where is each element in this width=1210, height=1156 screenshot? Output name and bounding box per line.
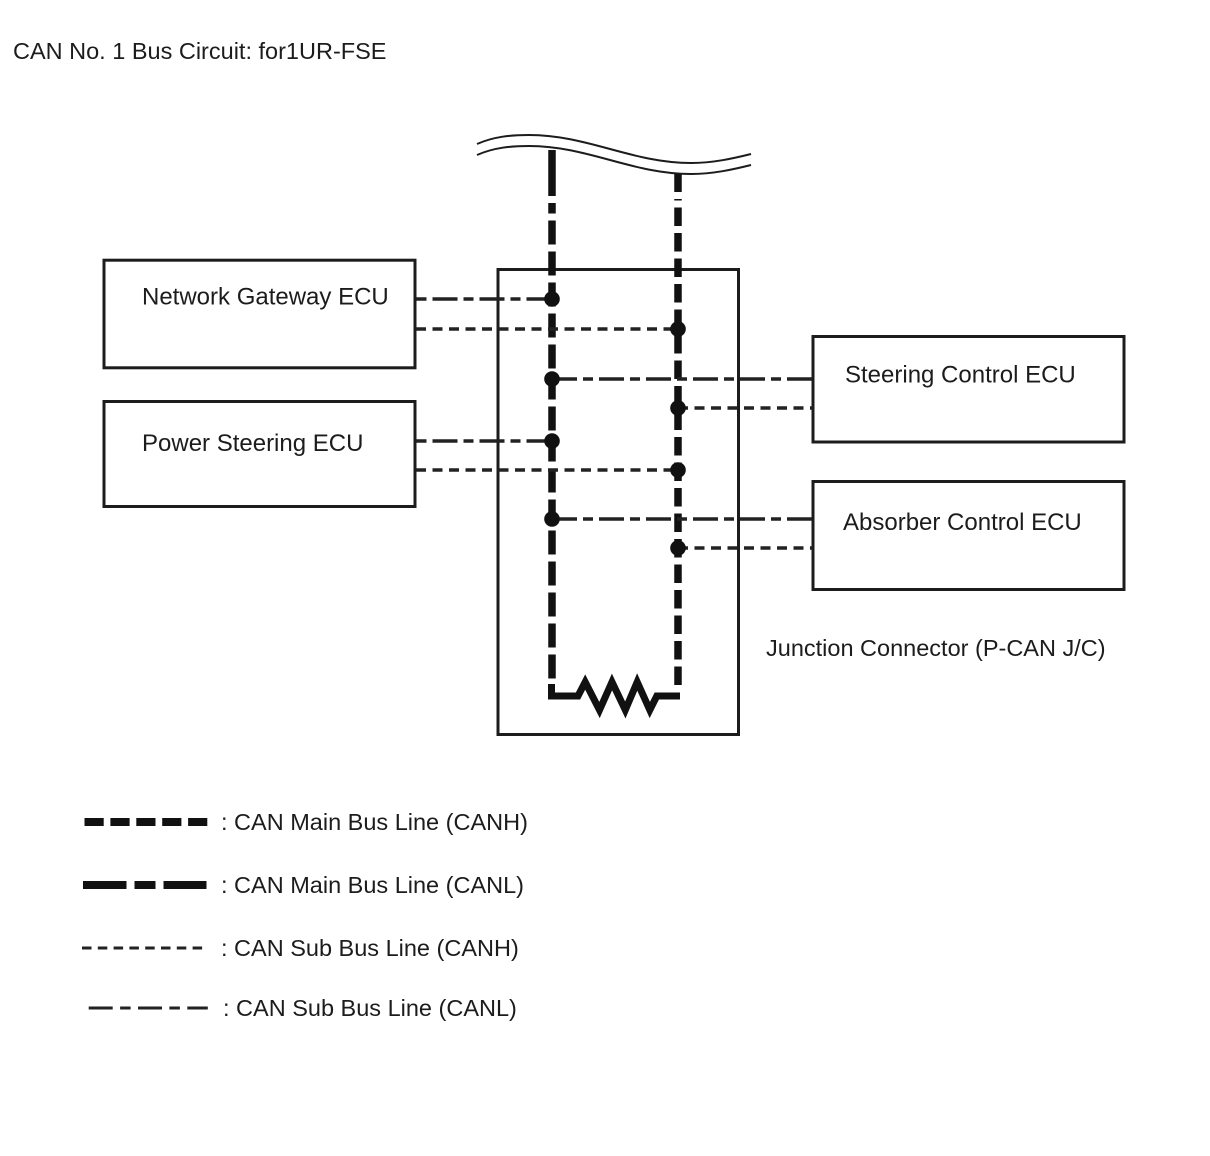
junction dot: PS CANH on right bus <box>670 462 686 478</box>
ECU box Power Steering <box>104 402 415 507</box>
svg-text:Power Steering ECU: Power Steering ECU <box>142 430 363 457</box>
svg-text:Steering Control ECU: Steering Control ECU <box>845 362 1076 389</box>
junction dot: PS CANL on left bus <box>544 433 560 449</box>
junction dot: NGW CANL on left bus <box>544 291 560 307</box>
junction dot: SC CANL on left bus <box>544 371 560 387</box>
ECU box Steering Control <box>813 337 1124 443</box>
legend sample: CAN Sub Bus Line (CANL) <box>89 1007 208 1010</box>
svg-text:CAN No. 1 Bus Circuit: for1UR-: CAN No. 1 Bus Circuit: for1UR-FSE <box>13 38 386 64</box>
junction connector box (P-CAN J/C) <box>498 270 739 735</box>
svg-text:Absorber Control ECU: Absorber Control ECU <box>843 509 1082 536</box>
wire CANH sub: right bus to Absorber Control ECU <box>678 546 813 549</box>
wire CANL sub: Power Steering ECU to left bus <box>417 439 553 442</box>
svg-text:: CAN Sub Bus Line (CANL): : CAN Sub Bus Line (CANL) <box>223 995 517 1021</box>
svg-text:Junction Connector (P-CAN J/C): Junction Connector (P-CAN J/C) <box>766 635 1106 661</box>
wire CANL sub: left bus to Steering Control ECU <box>552 377 813 380</box>
wire CANH main bus (right vertical, thick short dash) <box>674 174 682 685</box>
legend sample: CAN Sub Bus Line (CANH) <box>82 947 205 950</box>
wire CANH sub: right bus to Steering Control ECU <box>678 406 813 409</box>
junction dot: SC CANH on right bus <box>670 400 686 416</box>
ECU box Absorber Control <box>813 482 1124 590</box>
junction dot: AC CANL on left bus <box>544 511 560 527</box>
wire CANH sub: Network Gateway ECU to right bus <box>416 327 678 330</box>
svg-text:: CAN Sub Bus Line (CANH): : CAN Sub Bus Line (CANH) <box>221 935 519 961</box>
svg-text:: CAN Main Bus Line (CANH): : CAN Main Bus Line (CANH) <box>221 809 528 835</box>
svg-text:: CAN Main Bus Line (CANL): : CAN Main Bus Line (CANL) <box>221 872 524 898</box>
wire CANL sub: Network Gateway ECU to left bus <box>417 297 553 300</box>
ECU box Network Gateway <box>104 260 415 368</box>
wire break symbol (wavy lines) <box>477 135 751 174</box>
wire CANL main bus (left vertical, thick long dash) <box>548 150 556 679</box>
legend sample: CAN Main Bus Line (CANL) <box>83 881 207 889</box>
terminating resistor inside junction connector <box>552 682 681 710</box>
legend sample: CAN Main Bus Line (CANH) <box>85 818 211 826</box>
junction dot: NGW CANH on right bus <box>670 321 686 337</box>
svg-text:Network Gateway ECU: Network Gateway ECU <box>142 284 389 311</box>
wire CANH sub: Power Steering ECU to right bus <box>416 468 678 471</box>
junction dot: AC CANH on right bus <box>670 540 686 556</box>
wire CANL sub: left bus to Absorber Control ECU <box>552 517 813 520</box>
